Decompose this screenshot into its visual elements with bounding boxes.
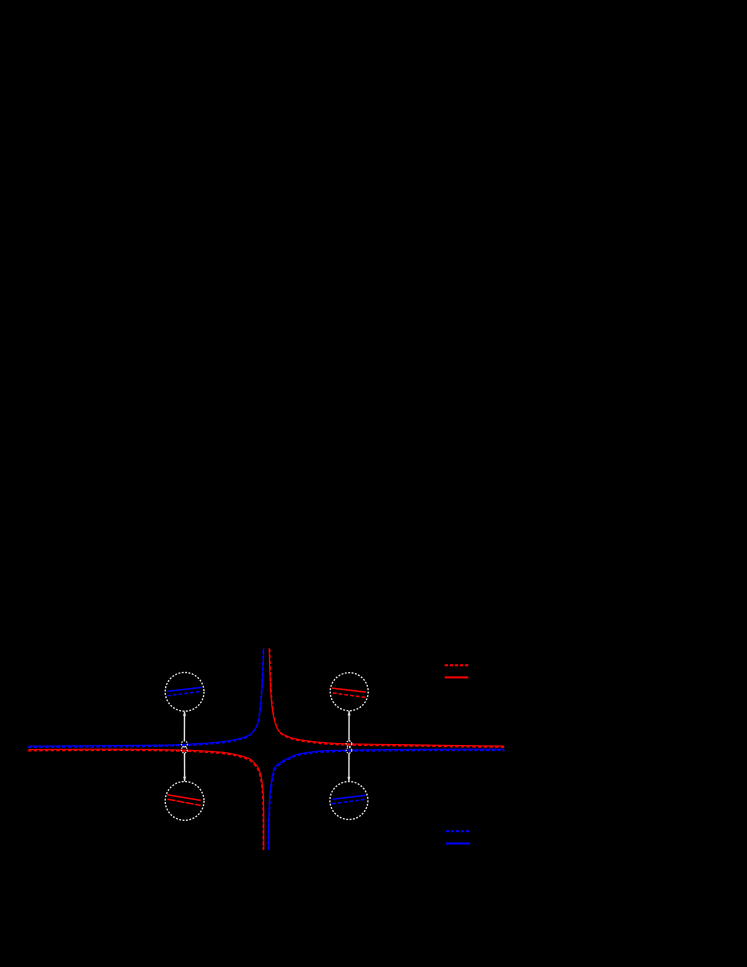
- inset circle upper-right: [330, 673, 368, 711]
- connector line: upper-right inset to data point: [348, 711, 350, 741]
- legend lower: blue solid sample: [446, 843, 470, 845]
- curve: red lower-left branch (dashed): [28, 750, 263, 850]
- inset lower-right: blue solid line: [333, 795, 366, 799]
- inset circle lower-right: [330, 782, 368, 820]
- curve: blue upper-left branch (solid): [29, 648, 264, 746]
- curve: red upper-right branch (dashed): [270, 649, 505, 747]
- small marker circle on red curve (left): [181, 747, 187, 753]
- curve: blue lower-right branch (solid): [268, 749, 504, 849]
- arrowhead: lower-right connector (points down to inset): [347, 777, 350, 782]
- inset circle lower-left: [165, 782, 204, 821]
- inset lower-right: blue dashed line: [332, 799, 366, 803]
- inset upper-right: red dashed line: [333, 693, 365, 698]
- arrowhead: lower-left connector (points down to inset): [183, 777, 186, 782]
- small marker circle on blue curve (left): [181, 741, 187, 747]
- curve: red lower-left branch (solid): [29, 749, 264, 849]
- inset upper-right: red solid line: [332, 688, 366, 692]
- small marker circle on blue curve (right): [346, 748, 352, 754]
- arrowhead: upper-right connector (points up to inset): [348, 711, 351, 716]
- connector line: upper-left inset to data point: [183, 712, 185, 741]
- legend lower: blue dashed sample: [446, 830, 470, 832]
- connector line: lower-left inset to data point: [184, 753, 186, 781]
- inset lower-left: red dashed line: [167, 799, 200, 805]
- arrowhead: upper-left connector (points up to inset): [183, 711, 186, 716]
- small marker circle on red curve (right): [346, 741, 352, 747]
- inset upper-left: blue solid line: [167, 687, 202, 691]
- inset upper-left: blue dashed line: [167, 691, 201, 695]
- legend upper: red dashed sample: [445, 664, 469, 666]
- curve: red upper-right branch (solid): [269, 648, 504, 746]
- legend upper: red solid sample: [445, 676, 469, 678]
- inset lower-left: red solid line: [167, 795, 201, 801]
- connector line: lower-right inset to data point: [348, 753, 350, 781]
- curve: blue lower-right branch (dashed): [269, 750, 505, 850]
- curve: blue upper-left branch (dashed): [28, 649, 263, 747]
- inset circle upper-left: [165, 672, 204, 711]
